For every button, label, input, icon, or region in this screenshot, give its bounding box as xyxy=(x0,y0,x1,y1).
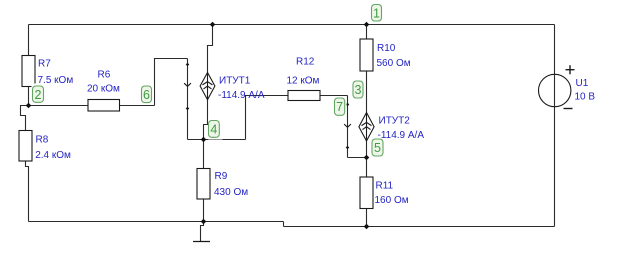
node label 3 xyxy=(351,79,366,100)
resistor R7 xyxy=(22,56,35,87)
node junction top R10 / node 1 xyxy=(364,22,370,28)
wire node 4 horizontal xyxy=(188,139,246,141)
wire R12 right to node 7 xyxy=(320,95,348,97)
node label 4 xyxy=(208,118,222,140)
svg-text:R7: R7 xyxy=(38,59,51,70)
ITUT1 control terminal dots xyxy=(186,63,190,111)
svg-text:R11: R11 xyxy=(376,181,394,192)
voltage source U1 10 В xyxy=(539,65,575,108)
wire top bus xyxy=(29,24,555,26)
wire ground lead xyxy=(201,222,204,242)
node junction R11 bottom xyxy=(364,224,370,230)
wire ITUT2 control bottom to node 5 junction xyxy=(348,157,367,159)
svg-text:12 кОм: 12 кОм xyxy=(287,76,320,87)
wire right vertical U1 branch xyxy=(554,25,556,227)
svg-text:-114.9 А/А: -114.9 А/А xyxy=(378,130,425,141)
resistor R6 xyxy=(88,100,120,112)
resistor R10 xyxy=(360,39,373,71)
wire ITUT1 bottom jog to node 4 xyxy=(204,100,208,140)
svg-text:20 кОм: 20 кОм xyxy=(87,84,120,95)
svg-text:3: 3 xyxy=(355,83,362,97)
svg-text:R9: R9 xyxy=(215,171,228,182)
svg-text:R10: R10 xyxy=(377,43,396,54)
svg-text:-114.9 А/А: -114.9 А/А xyxy=(218,90,265,101)
node junction node 4 xyxy=(201,137,207,143)
svg-text:4: 4 xyxy=(210,123,217,137)
wire R9 bottom to bus xyxy=(203,199,205,222)
wire node 2 to R6 to node 6 xyxy=(29,105,155,107)
wire ITUT2 control branch xyxy=(347,96,349,158)
svg-text:R12: R12 xyxy=(296,57,315,68)
svg-text:U1: U1 xyxy=(576,78,589,89)
node junction node 5 xyxy=(364,155,370,161)
ITUT1 control arrow xyxy=(184,83,191,86)
svg-text:430 Ом: 430 Ом xyxy=(214,187,248,198)
wire ITUT2 bottom to R11 xyxy=(366,141,368,177)
ground xyxy=(193,241,210,243)
wire ITUT1 control branch xyxy=(187,59,189,140)
wire bottom bus left xyxy=(29,221,284,223)
wire bottom bus jog xyxy=(283,222,285,227)
ITUT2 control terminal dots xyxy=(346,103,350,150)
node label 1 xyxy=(369,2,385,23)
wire top bus junction down to ITUT1 xyxy=(208,25,213,73)
wire R9 top lead xyxy=(203,140,205,169)
svg-text:5: 5 xyxy=(374,141,381,155)
wire left vertical to R7 xyxy=(28,25,30,56)
wire node 1 down to R10 xyxy=(366,25,368,40)
resistor R11 xyxy=(360,177,373,209)
svg-text:7.5 кОм: 7.5 кОм xyxy=(38,75,74,86)
node junction node 2 xyxy=(26,103,32,109)
svg-text:10 В: 10 В xyxy=(575,92,596,103)
resistor R9 xyxy=(197,169,210,200)
node label 6 xyxy=(139,84,154,105)
resistor R12 xyxy=(288,91,320,101)
svg-text:R8: R8 xyxy=(36,135,49,146)
wire node 6 up and over to ITUT1 control xyxy=(155,59,188,106)
wire node 2 jog to R8 xyxy=(21,106,29,131)
node label 7 xyxy=(332,96,347,117)
resistor R8 xyxy=(19,131,32,162)
wire R8 bottom to bottom bus xyxy=(26,161,29,222)
svg-text:160 Ом: 160 Ом xyxy=(375,195,409,206)
node junction ground xyxy=(201,219,207,225)
ITUT2 control arrow xyxy=(344,124,351,127)
svg-text:ИТУТ2: ИТУТ2 xyxy=(379,116,411,127)
svg-text:1: 1 xyxy=(373,7,380,21)
node label 5 xyxy=(370,137,386,159)
svg-text:2.4 кОм: 2.4 кОм xyxy=(35,150,71,161)
wire R7 bottom to node 2 xyxy=(28,87,30,106)
node junction top ITUT1 xyxy=(210,22,216,28)
dependent source ИТУТ2 (CCCS diamond) xyxy=(359,113,374,142)
svg-text:6: 6 xyxy=(143,88,150,102)
wire R11 bottom to bus xyxy=(366,209,368,227)
wire bottom bus right xyxy=(284,226,555,228)
svg-text:R6: R6 xyxy=(98,70,111,81)
node label 2 xyxy=(32,84,47,105)
svg-text:2: 2 xyxy=(35,88,42,102)
svg-text:ИТУТ1: ИТУТ1 xyxy=(219,76,251,87)
wire R10 bottom to ITUT2 xyxy=(366,71,368,113)
svg-text:560 Ом: 560 Ом xyxy=(377,58,411,69)
dependent source ИТУТ1 (CCCS diamond) xyxy=(200,73,215,100)
wire node 4 up to R12 xyxy=(246,96,289,140)
svg-text:7: 7 xyxy=(336,100,343,114)
